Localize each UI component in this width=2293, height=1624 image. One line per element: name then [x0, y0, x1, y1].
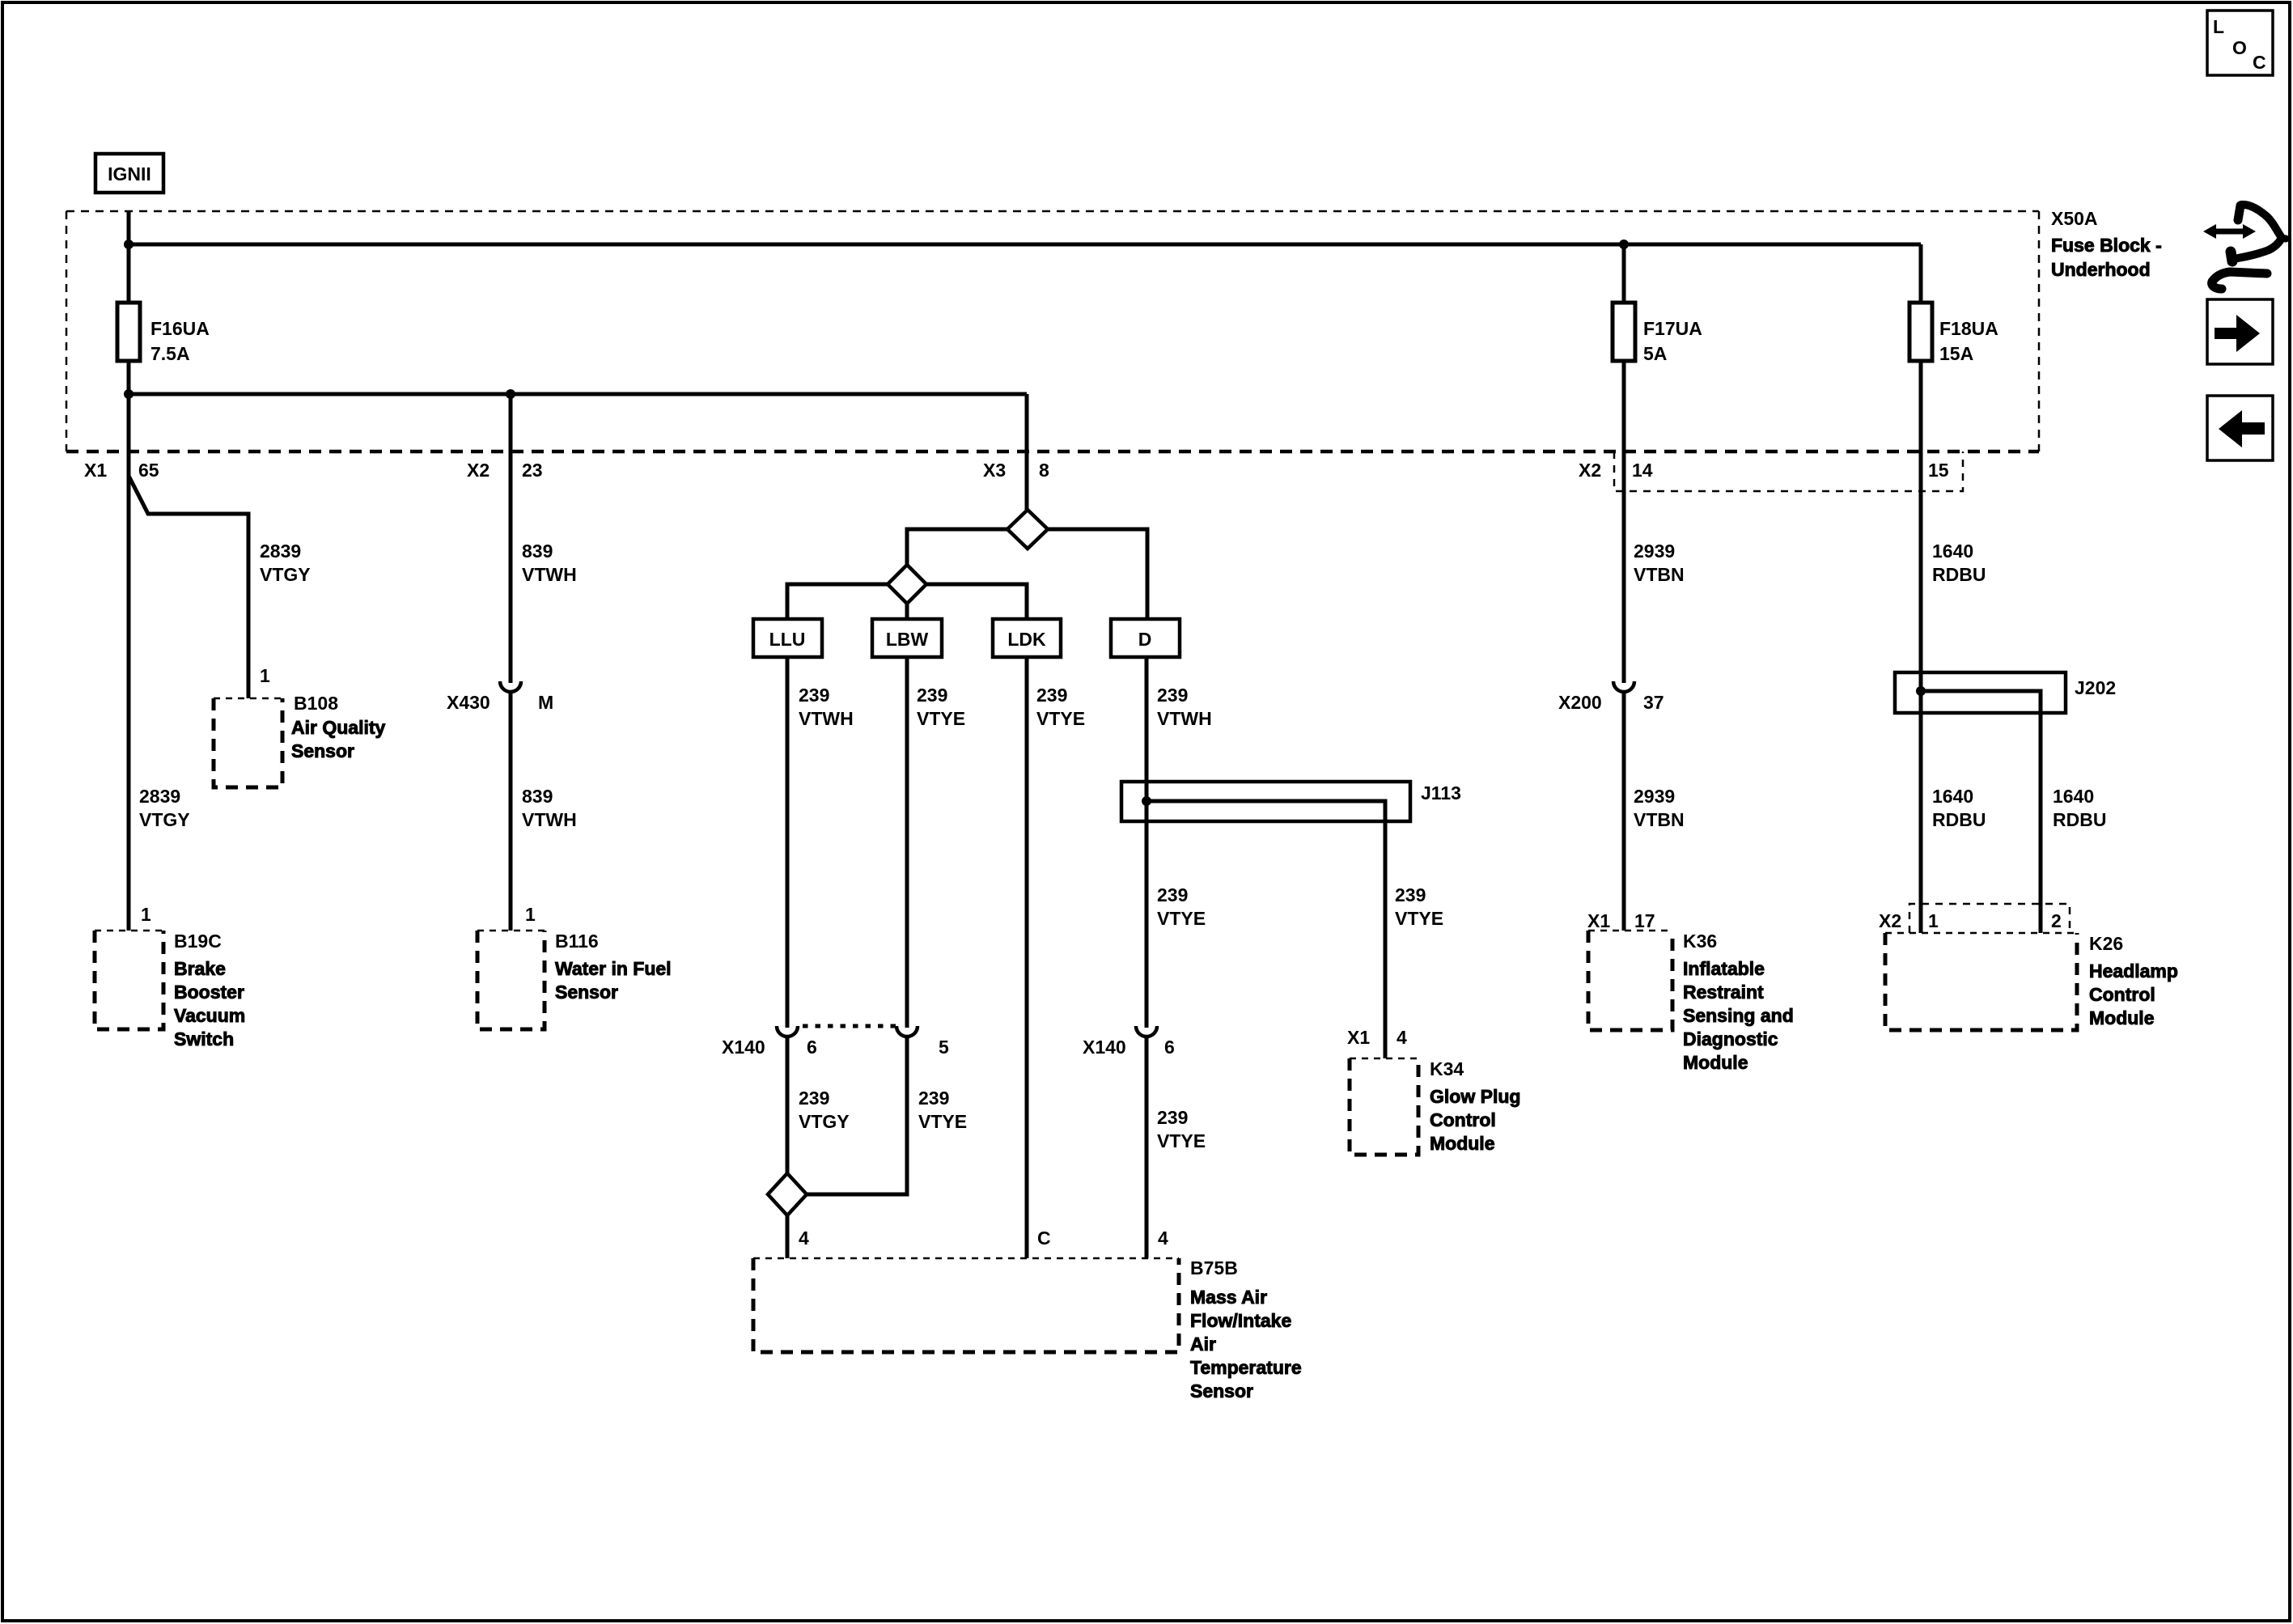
svg-text:X1: X1	[1347, 1027, 1370, 1048]
svg-text:2839: 2839	[260, 541, 301, 562]
pin labels X3 8	[983, 460, 1049, 481]
svg-text:Underhood: Underhood	[2051, 259, 2151, 280]
svg-text:Inflatable: Inflatable	[1683, 958, 1765, 979]
svg-text:Glow Plug: Glow Plug	[1430, 1086, 1520, 1107]
pin labels X1 4 of K34	[1347, 1027, 1407, 1048]
wire LBW lower to splice	[805, 1037, 907, 1194]
svg-text:239: 239	[1395, 884, 1426, 905]
svg-text:X3: X3	[983, 460, 1006, 481]
svg-text:Control: Control	[1430, 1109, 1496, 1130]
pin 1 of B108	[260, 665, 270, 686]
svg-text:5A: 5A	[1643, 343, 1667, 364]
inline connector X140 pin 6 right	[1083, 1026, 1175, 1058]
svg-text:14: 14	[1632, 460, 1653, 481]
svg-text:X50A: X50A	[2051, 208, 2098, 229]
wire D lower to B75B	[1145, 1037, 1149, 1258]
svg-text:VTYE: VTYE	[1157, 1130, 1206, 1151]
wire label 839 VTWH lower	[522, 786, 577, 830]
svg-text:X430: X430	[447, 692, 490, 713]
svg-text:2839: 2839	[139, 786, 180, 807]
svg-text:VTWH: VTWH	[522, 809, 577, 830]
svg-text:X1: X1	[1587, 910, 1610, 931]
wire under LDK	[1025, 657, 1029, 1258]
component B108 box	[214, 698, 282, 787]
component K34 Glow Plug Control Module label	[1430, 1058, 1520, 1154]
wire label 239 VTYE right J113 out	[1395, 884, 1443, 929]
svg-text:Module: Module	[1430, 1133, 1495, 1154]
splice pack J202	[1895, 672, 2116, 713]
wire label 1640 RDBU upper	[1932, 541, 1986, 585]
wire under D	[1145, 657, 1149, 1028]
splice diamond upper	[1007, 510, 1048, 549]
wire label 2939 VTBN upper	[1634, 541, 1685, 585]
wire second bus	[129, 392, 1027, 396]
svg-text:X2: X2	[467, 460, 490, 481]
node LDK	[993, 619, 1061, 657]
svg-text:2939: 2939	[1634, 786, 1675, 807]
svg-text:Headlamp: Headlamp	[2089, 960, 2178, 982]
svg-text:C: C	[2253, 52, 2266, 73]
pin labels 4 C 4 of B75B	[799, 1228, 1168, 1249]
wire diamond to LBW splice	[907, 529, 1007, 566]
node D	[1111, 619, 1180, 657]
svg-text:7.5A: 7.5A	[150, 343, 190, 364]
splice pack J113	[1121, 782, 1461, 821]
wire label 239 VTWH under LLU	[799, 685, 854, 729]
svg-text:Sensor: Sensor	[555, 982, 618, 1003]
svg-text:Brake: Brake	[174, 958, 226, 979]
LOC legend box	[2207, 11, 2273, 75]
svg-text:O: O	[2232, 37, 2247, 58]
svg-text:IGNII: IGNII	[108, 163, 151, 184]
svg-text:15A: 15A	[1939, 343, 1973, 364]
svg-text:RDBU: RDBU	[1932, 564, 1986, 585]
svg-text:B75B: B75B	[1190, 1257, 1238, 1278]
arrow box left	[2207, 396, 2273, 460]
svg-text:VTWH: VTWH	[522, 564, 577, 585]
wire branch to B108	[129, 476, 248, 698]
svg-text:X200: X200	[1558, 692, 1602, 713]
svg-text:Restraint: Restraint	[1683, 982, 1764, 1003]
svg-text:Module: Module	[1683, 1052, 1748, 1073]
svg-text:6: 6	[1164, 1037, 1175, 1058]
svg-text:1: 1	[1928, 910, 1939, 931]
wire under LLU	[786, 657, 790, 1028]
wire label 239 VTYE under LDK	[1036, 685, 1085, 729]
svg-text:239: 239	[1157, 1107, 1188, 1128]
svg-text:LLU: LLU	[769, 629, 806, 650]
node IGNII	[95, 154, 163, 193]
svg-text:VTYE: VTYE	[918, 1111, 967, 1132]
svg-text:K36: K36	[1683, 931, 1717, 952]
junction	[506, 389, 515, 399]
svg-text:M: M	[538, 692, 553, 713]
svg-text:239: 239	[1036, 685, 1067, 706]
component B116 Water in Fuel Sensor label	[555, 931, 672, 1003]
svg-text:B116: B116	[555, 931, 599, 952]
fuse F18UA value label	[1939, 318, 1998, 364]
svg-text:1: 1	[141, 904, 151, 925]
svg-text:Control: Control	[2089, 984, 2155, 1005]
svg-text:Diagnostic: Diagnostic	[1683, 1028, 1778, 1049]
svg-text:D: D	[1138, 629, 1152, 650]
svg-text:VTYE: VTYE	[917, 708, 965, 729]
svg-text:15: 15	[1928, 460, 1949, 481]
svg-text:LBW: LBW	[886, 629, 929, 650]
wire main bus from IGNII fuse row	[129, 243, 1921, 247]
svg-text:Vacuum: Vacuum	[174, 1005, 245, 1026]
wire F17UA branch lower	[1622, 693, 1626, 931]
component K36 box	[1588, 931, 1672, 1030]
svg-text:LDK: LDK	[1007, 629, 1046, 650]
svg-text:Booster: Booster	[174, 982, 244, 1003]
svg-text:1640: 1640	[1932, 786, 1973, 807]
wire splice to B75B pin 4	[786, 1215, 790, 1258]
wire label 1640 RDBU lower right	[2053, 786, 2106, 830]
svg-text:4: 4	[799, 1228, 809, 1249]
component K36 Inflatable Restraint Sensing and Diagnostic Module label	[1683, 931, 1794, 1073]
svg-text:VTBN: VTBN	[1634, 564, 1685, 585]
svg-text:Temperature: Temperature	[1190, 1357, 1302, 1378]
svg-text:RDBU: RDBU	[1932, 809, 1986, 830]
fuse F16UA	[117, 303, 140, 361]
wire label 239 VTGY lower	[799, 1088, 850, 1132]
wire splice to LDK	[926, 584, 1027, 619]
svg-text:B19C: B19C	[174, 931, 222, 952]
node LBW	[872, 619, 942, 657]
dotted connector link X140	[803, 1024, 896, 1028]
wire LLU lower to splice diamond	[786, 1037, 790, 1175]
label X50A Fuse Block Underhood	[2051, 208, 2162, 280]
connector X2 pin rectangle 14 15	[1614, 452, 1963, 491]
wire splice to LLU	[787, 584, 888, 619]
wire IGNII feed vertical	[127, 211, 131, 931]
svg-text:1640: 1640	[2053, 786, 2094, 807]
svg-text:4: 4	[1158, 1228, 1168, 1249]
svg-text:2939: 2939	[1634, 541, 1675, 562]
svg-text:VTBN: VTBN	[1634, 809, 1685, 830]
svg-text:X2: X2	[1879, 910, 1901, 931]
junction	[124, 240, 134, 249]
svg-text:1640: 1640	[1932, 541, 1973, 562]
svg-text:65: 65	[138, 460, 159, 481]
inline connector X140 pin 5	[896, 1026, 949, 1058]
wire label 2839 VTGY lower	[139, 786, 190, 830]
node LLU	[753, 619, 822, 657]
pin labels X2 23	[467, 460, 543, 481]
junction	[124, 389, 134, 399]
svg-text:1: 1	[260, 665, 270, 686]
svg-text:Fuse Block -: Fuse Block -	[2051, 235, 2162, 256]
svg-text:X140: X140	[1083, 1037, 1126, 1058]
svg-text:239: 239	[799, 685, 829, 706]
wire X2-23 branch lower	[509, 693, 513, 931]
svg-text:X2: X2	[1579, 460, 1601, 481]
svg-text:839: 839	[522, 786, 553, 807]
svg-text:VTGY: VTGY	[139, 809, 190, 830]
svg-text:K26: K26	[2089, 933, 2123, 954]
svg-text:C: C	[1037, 1228, 1051, 1249]
wire J113 branch to K34	[1146, 801, 1385, 1058]
component B19C box	[95, 931, 163, 1029]
svg-text:B108: B108	[294, 693, 338, 714]
svg-text:5: 5	[939, 1037, 949, 1058]
component K34 box	[1350, 1058, 1418, 1155]
component K26 box	[1885, 933, 2077, 1030]
connector X2 pin rectangle of K26	[1909, 904, 2070, 933]
svg-text:239: 239	[918, 1088, 949, 1109]
svg-text:J113: J113	[1421, 782, 1461, 804]
wire label 2939 VTBN lower	[1634, 786, 1685, 830]
svg-text:1: 1	[525, 904, 536, 925]
svg-text:6: 6	[807, 1037, 817, 1058]
svg-text:Air: Air	[1190, 1334, 1216, 1355]
svg-text:F18UA: F18UA	[1939, 318, 1998, 339]
svg-text:VTGY: VTGY	[799, 1111, 850, 1132]
svg-text:X1: X1	[84, 460, 107, 481]
svg-text:Mass Air: Mass Air	[1190, 1287, 1267, 1308]
pin labels X2 14 15	[1579, 460, 1949, 481]
svg-text:Water in Fuel: Water in Fuel	[555, 958, 672, 979]
svg-text:839: 839	[522, 541, 553, 562]
svg-text:4: 4	[1397, 1027, 1407, 1048]
component K26 Headlamp Control Module label	[2089, 933, 2178, 1028]
svg-text:Module: Module	[2089, 1007, 2155, 1028]
junction inside J202	[1916, 686, 1926, 696]
wire splice to LBW	[905, 604, 909, 619]
svg-text:VTYE: VTYE	[1395, 908, 1443, 929]
svg-text:RDBU: RDBU	[2053, 809, 2106, 830]
svg-text:239: 239	[917, 685, 947, 706]
svg-text:17: 17	[1634, 910, 1655, 931]
inline connector X140 pin 6 left	[722, 1026, 817, 1058]
pin 1 of B19C	[141, 904, 151, 925]
fuse F16UA value label	[150, 318, 210, 364]
svg-text:Flow/Intake: Flow/Intake	[1190, 1310, 1291, 1331]
component B19C Brake Booster Vacuum Switch label	[174, 931, 245, 1049]
svg-text:Air Quality: Air Quality	[291, 717, 386, 738]
component B116 box	[477, 931, 545, 1029]
pin labels X1 65	[84, 460, 159, 481]
svg-text:K34: K34	[1430, 1058, 1464, 1079]
wire label 1640 RDBU lower left	[1932, 786, 1986, 830]
svg-text:Sensing and: Sensing and	[1683, 1005, 1794, 1026]
svg-text:2: 2	[2051, 910, 2062, 931]
svg-text:239: 239	[1157, 685, 1188, 706]
splice diamond bottom	[768, 1173, 807, 1215]
svg-text:L: L	[2213, 16, 2224, 37]
svg-text:J202: J202	[2075, 677, 2116, 698]
inline connector X200 pin 37	[1558, 681, 1664, 713]
wire J202 branch to K26 pin 2	[1921, 691, 2041, 933]
svg-text:VTGY: VTGY	[260, 564, 311, 585]
fuse block X50A dashed outline	[66, 211, 2039, 452]
svg-text:239: 239	[799, 1088, 829, 1109]
pin labels X1 17 of K36	[1587, 910, 1655, 931]
svg-text:VTYE: VTYE	[1157, 908, 1206, 929]
svg-text:Switch: Switch	[174, 1028, 234, 1049]
junction inside J113	[1142, 796, 1151, 806]
pin labels X2 1 2 of K26	[1879, 910, 2062, 931]
svg-text:23: 23	[522, 460, 543, 481]
svg-text:F17UA: F17UA	[1643, 318, 1702, 339]
svg-text:F16UA: F16UA	[150, 318, 210, 339]
splice diamond lower	[888, 565, 926, 604]
off-page reference scribble icon	[2203, 205, 2286, 289]
wire label 839 VTWH upper	[522, 541, 577, 585]
wire label 239 VTWH under D	[1157, 685, 1212, 729]
wire label 239 VTYE left of J113 out	[1157, 884, 1206, 929]
wire label 239 VTYE right lower	[1157, 1107, 1206, 1151]
wire diamond to D box	[1048, 529, 1147, 619]
fuse F17UA value label	[1643, 318, 1702, 364]
svg-text:Sensor: Sensor	[1190, 1380, 1253, 1401]
fuse F17UA	[1613, 244, 1635, 683]
svg-text:VTWH: VTWH	[1157, 708, 1212, 729]
wire X3-8 branch	[1025, 394, 1029, 511]
fuse F18UA	[1909, 244, 1932, 933]
component B75B Mass Air Flow Intake Air Temperature Sensor label	[1190, 1257, 1302, 1401]
svg-text:37: 37	[1643, 692, 1664, 713]
wire label 239 VTYE lower	[918, 1088, 967, 1132]
svg-text:VTWH: VTWH	[799, 708, 854, 729]
wire label 2839 VTGY upper	[260, 541, 311, 585]
svg-text:Sensor: Sensor	[291, 740, 354, 761]
wire X2-23 branch upper	[509, 394, 513, 683]
pin 1 of B116	[525, 904, 536, 925]
svg-text:X140: X140	[722, 1037, 765, 1058]
wire label 239 VTYE under LBW	[917, 685, 965, 729]
junction	[1619, 240, 1629, 249]
component B108 Air Quality Sensor label	[291, 693, 386, 761]
component B75B box	[753, 1258, 1179, 1352]
arrow box right	[2207, 299, 2273, 364]
svg-text:8: 8	[1039, 460, 1049, 481]
wire under LBW	[905, 657, 909, 1028]
svg-text:239: 239	[1157, 884, 1188, 905]
svg-text:VTYE: VTYE	[1036, 708, 1085, 729]
inline connector X430 pin M	[447, 681, 553, 713]
